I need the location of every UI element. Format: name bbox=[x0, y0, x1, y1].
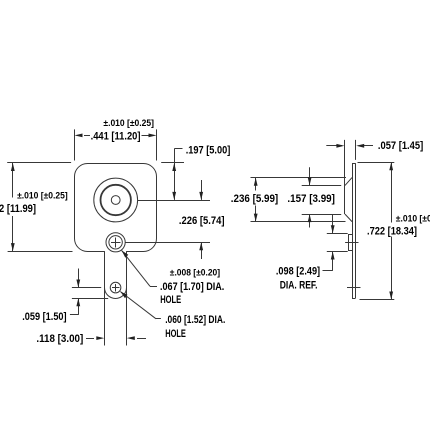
rivet centerline tick bbox=[345, 242, 358, 244]
dim .226 lower shaft bbox=[201, 242, 203, 259]
svg-text:±.010 [±0.25]: ±.010 [±0.25] bbox=[17, 191, 68, 201]
arrowhead .441 right bbox=[149, 134, 157, 138]
arrowhead .098 down bbox=[331, 225, 335, 233]
dome face bottom extension line bbox=[302, 214, 342, 216]
svg-text:.441 [11.20]: .441 [11.20] bbox=[91, 131, 141, 143]
dim .197 shaft bbox=[174, 149, 176, 200]
svg-text:.722 [18.34]: .722 [18.34] bbox=[367, 226, 417, 238]
arrowhead .226 up bbox=[199, 242, 203, 250]
svg-text:±.008 [±0.20]: ±.008 [±0.20] bbox=[170, 268, 220, 278]
dim .722 upper shaft bbox=[391, 162, 393, 222]
svg-text:.226 [5.74]: .226 [5.74] bbox=[179, 215, 225, 227]
dim .098 upper shaft bbox=[332, 215, 334, 234]
arrowhead .441 left bbox=[75, 134, 83, 138]
leader hole H1 dash bbox=[150, 286, 157, 288]
svg-text:HOLE: HOLE bbox=[165, 328, 186, 340]
arrowhead .118 left bbox=[127, 336, 135, 340]
arrowhead .157 down bbox=[308, 177, 312, 185]
arrowhead .118 right bbox=[96, 336, 104, 340]
leader hole H2 dash bbox=[156, 318, 161, 320]
dim .059 lower shaft bbox=[78, 298, 80, 315]
tab right edge bbox=[126, 251, 128, 345]
dome chamfer bottom bbox=[345, 214, 352, 222]
tab left edge bbox=[104, 251, 106, 345]
dim .059 elbow bbox=[70, 314, 78, 316]
arrowhead .098 up bbox=[331, 252, 335, 260]
dim .236 lower shaft bbox=[255, 206, 257, 222]
leader hole H2 bbox=[120, 292, 156, 319]
dim .118 left arrow shaft bbox=[86, 338, 94, 340]
dim .118 right arrow shaft bbox=[137, 338, 146, 340]
arrowhead .157 up bbox=[308, 214, 312, 222]
svg-text:DIA. REF.: DIA. REF. bbox=[280, 279, 318, 291]
dim .236 upper shaft bbox=[255, 178, 257, 191]
dome top extension line bbox=[251, 177, 347, 179]
svg-text:.236 [5.99]: .236 [5.99] bbox=[231, 193, 279, 205]
tab bottom arc bbox=[105, 288, 127, 299]
dim .441 left extension line bbox=[74, 129, 76, 160]
hole H1 centerline bbox=[125, 242, 210, 244]
rivet side profile bbox=[349, 235, 353, 251]
hole H2 bbox=[110, 282, 121, 293]
snap middle ring bbox=[101, 185, 131, 215]
snap centerline bbox=[138, 200, 210, 202]
arrowhead .059 down bbox=[76, 280, 80, 288]
arrowhead .197 up bbox=[172, 163, 176, 171]
arrowhead .236 down bbox=[254, 214, 258, 222]
dim .722 lower shaft bbox=[391, 237, 393, 300]
svg-text:.057 [1.45]: .057 [1.45] bbox=[378, 140, 424, 152]
dim .197 elbow bbox=[174, 148, 182, 150]
svg-text:.067 [1.70] DIA.: .067 [1.70] DIA. bbox=[160, 281, 224, 293]
dim .059 upper shaft bbox=[78, 269, 80, 288]
svg-text:.059 [1.50]: .059 [1.50] bbox=[22, 311, 67, 323]
arrowhead .197 down bbox=[172, 192, 176, 200]
svg-text:.060 [1.52] DIA.: .060 [1.52] DIA. bbox=[165, 314, 225, 326]
dim .441 right arrow dash bbox=[142, 135, 150, 137]
dome bottom extension line bbox=[251, 221, 346, 223]
front view plate outline bbox=[75, 164, 157, 252]
dome face top extension line bbox=[302, 185, 342, 187]
rivet hole H1 outer bbox=[106, 233, 125, 252]
dim .472 line upper bbox=[12, 163, 14, 198]
dim .057 right arrow shaft bbox=[359, 145, 374, 147]
hole H2 centerline tick bbox=[347, 287, 361, 289]
svg-text:.472 [11.99]: .472 [11.99] bbox=[0, 203, 36, 215]
dim .098 top extension bbox=[327, 233, 348, 235]
dim .157 upper shaft bbox=[309, 167, 311, 185]
arrowhead .722 down bbox=[389, 292, 393, 300]
rivet hole H1 cross bbox=[111, 238, 121, 248]
arrowhead .236 up bbox=[254, 178, 258, 186]
arrowhead leader H1 bbox=[122, 250, 129, 257]
hole H2 cross bbox=[112, 284, 120, 292]
dim .226 upper shaft bbox=[201, 180, 203, 200]
rivet hole H1 inner bbox=[109, 236, 122, 249]
arrowhead .226 down bbox=[199, 192, 203, 200]
snap outer circle bbox=[94, 178, 138, 222]
dim .722 bottom extension bbox=[360, 299, 395, 301]
dome face bbox=[344, 140, 346, 214]
arrowhead leader H2 bbox=[120, 292, 127, 299]
svg-text:HOLE: HOLE bbox=[160, 294, 181, 306]
dome chamfer top bbox=[345, 178, 352, 186]
dim .197 top tick bbox=[161, 162, 184, 164]
dim .098 lower shaft bbox=[332, 252, 334, 271]
dim .098 bottom extension bbox=[327, 251, 348, 253]
arrowhead .722 up bbox=[389, 162, 393, 170]
svg-text:±.010 [±0.25]: ±.010 [±0.25] bbox=[396, 213, 430, 223]
arrowhead .057 left bbox=[356, 144, 364, 148]
side view plate left edge bbox=[352, 163, 354, 298]
svg-text:.197 [5.00]: .197 [5.00] bbox=[186, 145, 231, 157]
dim .472 bottom extension line bbox=[8, 251, 73, 253]
arrowhead .057 right bbox=[336, 144, 344, 148]
dim .472 line lower bbox=[12, 216, 14, 251]
arrowhead .059 up bbox=[76, 298, 80, 306]
dim .441 right extension line bbox=[156, 129, 158, 160]
svg-text:.098 [2.49]: .098 [2.49] bbox=[276, 265, 320, 277]
dim .059 ext line top bbox=[72, 287, 101, 289]
dim .472 top extension line bbox=[7, 162, 71, 164]
dim .098 elbow bbox=[323, 270, 333, 272]
arrowhead .472 up bbox=[11, 163, 15, 171]
side view plate top cap bbox=[352, 163, 356, 165]
dim .722 top extension bbox=[358, 162, 395, 164]
arrowhead .472 down bbox=[11, 243, 15, 251]
svg-text:±.010 [±0.25]: ±.010 [±0.25] bbox=[103, 118, 154, 128]
svg-text:.157 [3.99]: .157 [3.99] bbox=[287, 193, 335, 205]
dim .057 right extension bbox=[355, 140, 357, 160]
dim .057 left arrow shaft bbox=[326, 145, 342, 147]
dim .157 lower shaft bbox=[309, 214, 311, 227]
side view plate right edge bbox=[355, 163, 357, 298]
dim .441 left arrow dash bbox=[84, 135, 90, 137]
side view plate bottom cap bbox=[352, 298, 356, 300]
dim .059 ext line bottom bbox=[72, 298, 108, 300]
snap center circle bbox=[111, 196, 120, 205]
svg-text:.118 [3.00]: .118 [3.00] bbox=[36, 333, 83, 345]
leader hole H1 bbox=[122, 250, 150, 286]
